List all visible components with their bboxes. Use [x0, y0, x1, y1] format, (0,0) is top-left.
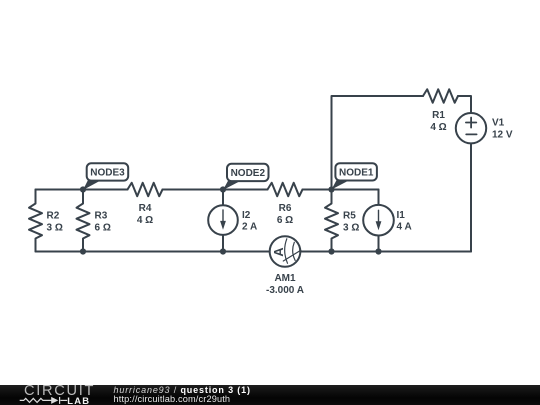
wire V1 bottom to rail	[470, 144, 472, 252]
resistor R3	[77, 190, 90, 252]
svg-text:A: A	[271, 247, 286, 257]
wire I2 leads	[222, 190, 224, 252]
svg-text:6 Ω: 6 Ω	[95, 223, 111, 234]
junction dot NODE2 top	[220, 186, 226, 192]
label R2 value	[47, 211, 63, 234]
svg-text:R6: R6	[279, 203, 292, 214]
junction dot I2 bottom	[220, 248, 226, 254]
CircuitLab logo	[24, 384, 95, 399]
svg-text:-3.000 A: -3.000 A	[266, 285, 304, 296]
svg-text:4 Ω: 4 Ω	[430, 122, 446, 133]
label R1 value	[430, 110, 446, 133]
svg-text:I1: I1	[397, 210, 406, 221]
footer bar	[0, 385, 540, 405]
current source I2	[208, 205, 238, 235]
svg-text:6 Ω: 6 Ω	[277, 215, 293, 226]
junction dot NODE3 top	[80, 186, 86, 192]
wire top loop from NODE1 to R1	[332, 96, 424, 190]
logo diode glyph	[51, 397, 58, 404]
resistor R6	[268, 183, 303, 197]
wire bottom rail left of AM1	[36, 251, 270, 253]
junction dot R5 bottom	[328, 248, 334, 254]
label AM1 value	[266, 273, 304, 296]
svg-text:4 A: 4 A	[397, 222, 412, 233]
label I1 value	[397, 210, 412, 232]
svg-text:R1: R1	[432, 110, 445, 121]
svg-text:R4: R4	[139, 203, 152, 214]
footer credit text	[114, 385, 251, 395]
wire NODE2-NODE1 segment	[303, 189, 379, 191]
node NODE3 balloon	[83, 163, 128, 190]
svg-text:R2: R2	[47, 211, 60, 222]
current source I1	[363, 205, 394, 236]
label V1 value	[492, 118, 513, 141]
junction dot NODE1 top	[328, 186, 334, 192]
label R5 value	[343, 211, 359, 234]
svg-text:NODE1: NODE1	[339, 168, 374, 179]
resistor R2	[29, 190, 42, 252]
wire R1 to V1 top	[458, 96, 471, 113]
svg-text:3 Ω: 3 Ω	[343, 223, 359, 234]
ammeter AM1	[270, 236, 301, 267]
resistor R1	[423, 89, 458, 103]
svg-text:12 V: 12 V	[492, 130, 513, 141]
svg-text:R5: R5	[343, 211, 356, 222]
svg-text:NODE2: NODE2	[231, 168, 266, 179]
wire main node row left segment	[36, 189, 128, 191]
svg-text:2 A: 2 A	[242, 222, 257, 233]
svg-text:I2: I2	[242, 210, 251, 221]
node NODE1 balloon	[332, 163, 377, 189]
svg-text:4 Ω: 4 Ω	[137, 215, 153, 226]
resistor R5	[325, 190, 338, 252]
svg-text:V1: V1	[492, 118, 505, 129]
label R6 value	[277, 203, 293, 226]
junction dot I1 bottom	[375, 248, 381, 254]
svg-text:3 Ω: 3 Ω	[47, 223, 63, 234]
label I2 value	[242, 210, 257, 232]
label R3 value	[95, 211, 111, 234]
logo resistor glyph	[20, 397, 67, 404]
svg-text:R3: R3	[95, 211, 108, 222]
svg-text:AM1: AM1	[274, 273, 296, 284]
voltage source V1	[456, 113, 486, 143]
wire NODE3-NODE2 segment	[163, 189, 268, 191]
junction dot R3 bottom	[80, 248, 86, 254]
resistor R4	[128, 183, 163, 197]
wire I1 leads	[378, 190, 380, 252]
wire bottom rail right of AM1	[300, 251, 471, 253]
node NODE2 balloon	[223, 164, 269, 190]
svg-text:NODE3: NODE3	[90, 168, 125, 179]
label R4 value	[137, 203, 153, 226]
